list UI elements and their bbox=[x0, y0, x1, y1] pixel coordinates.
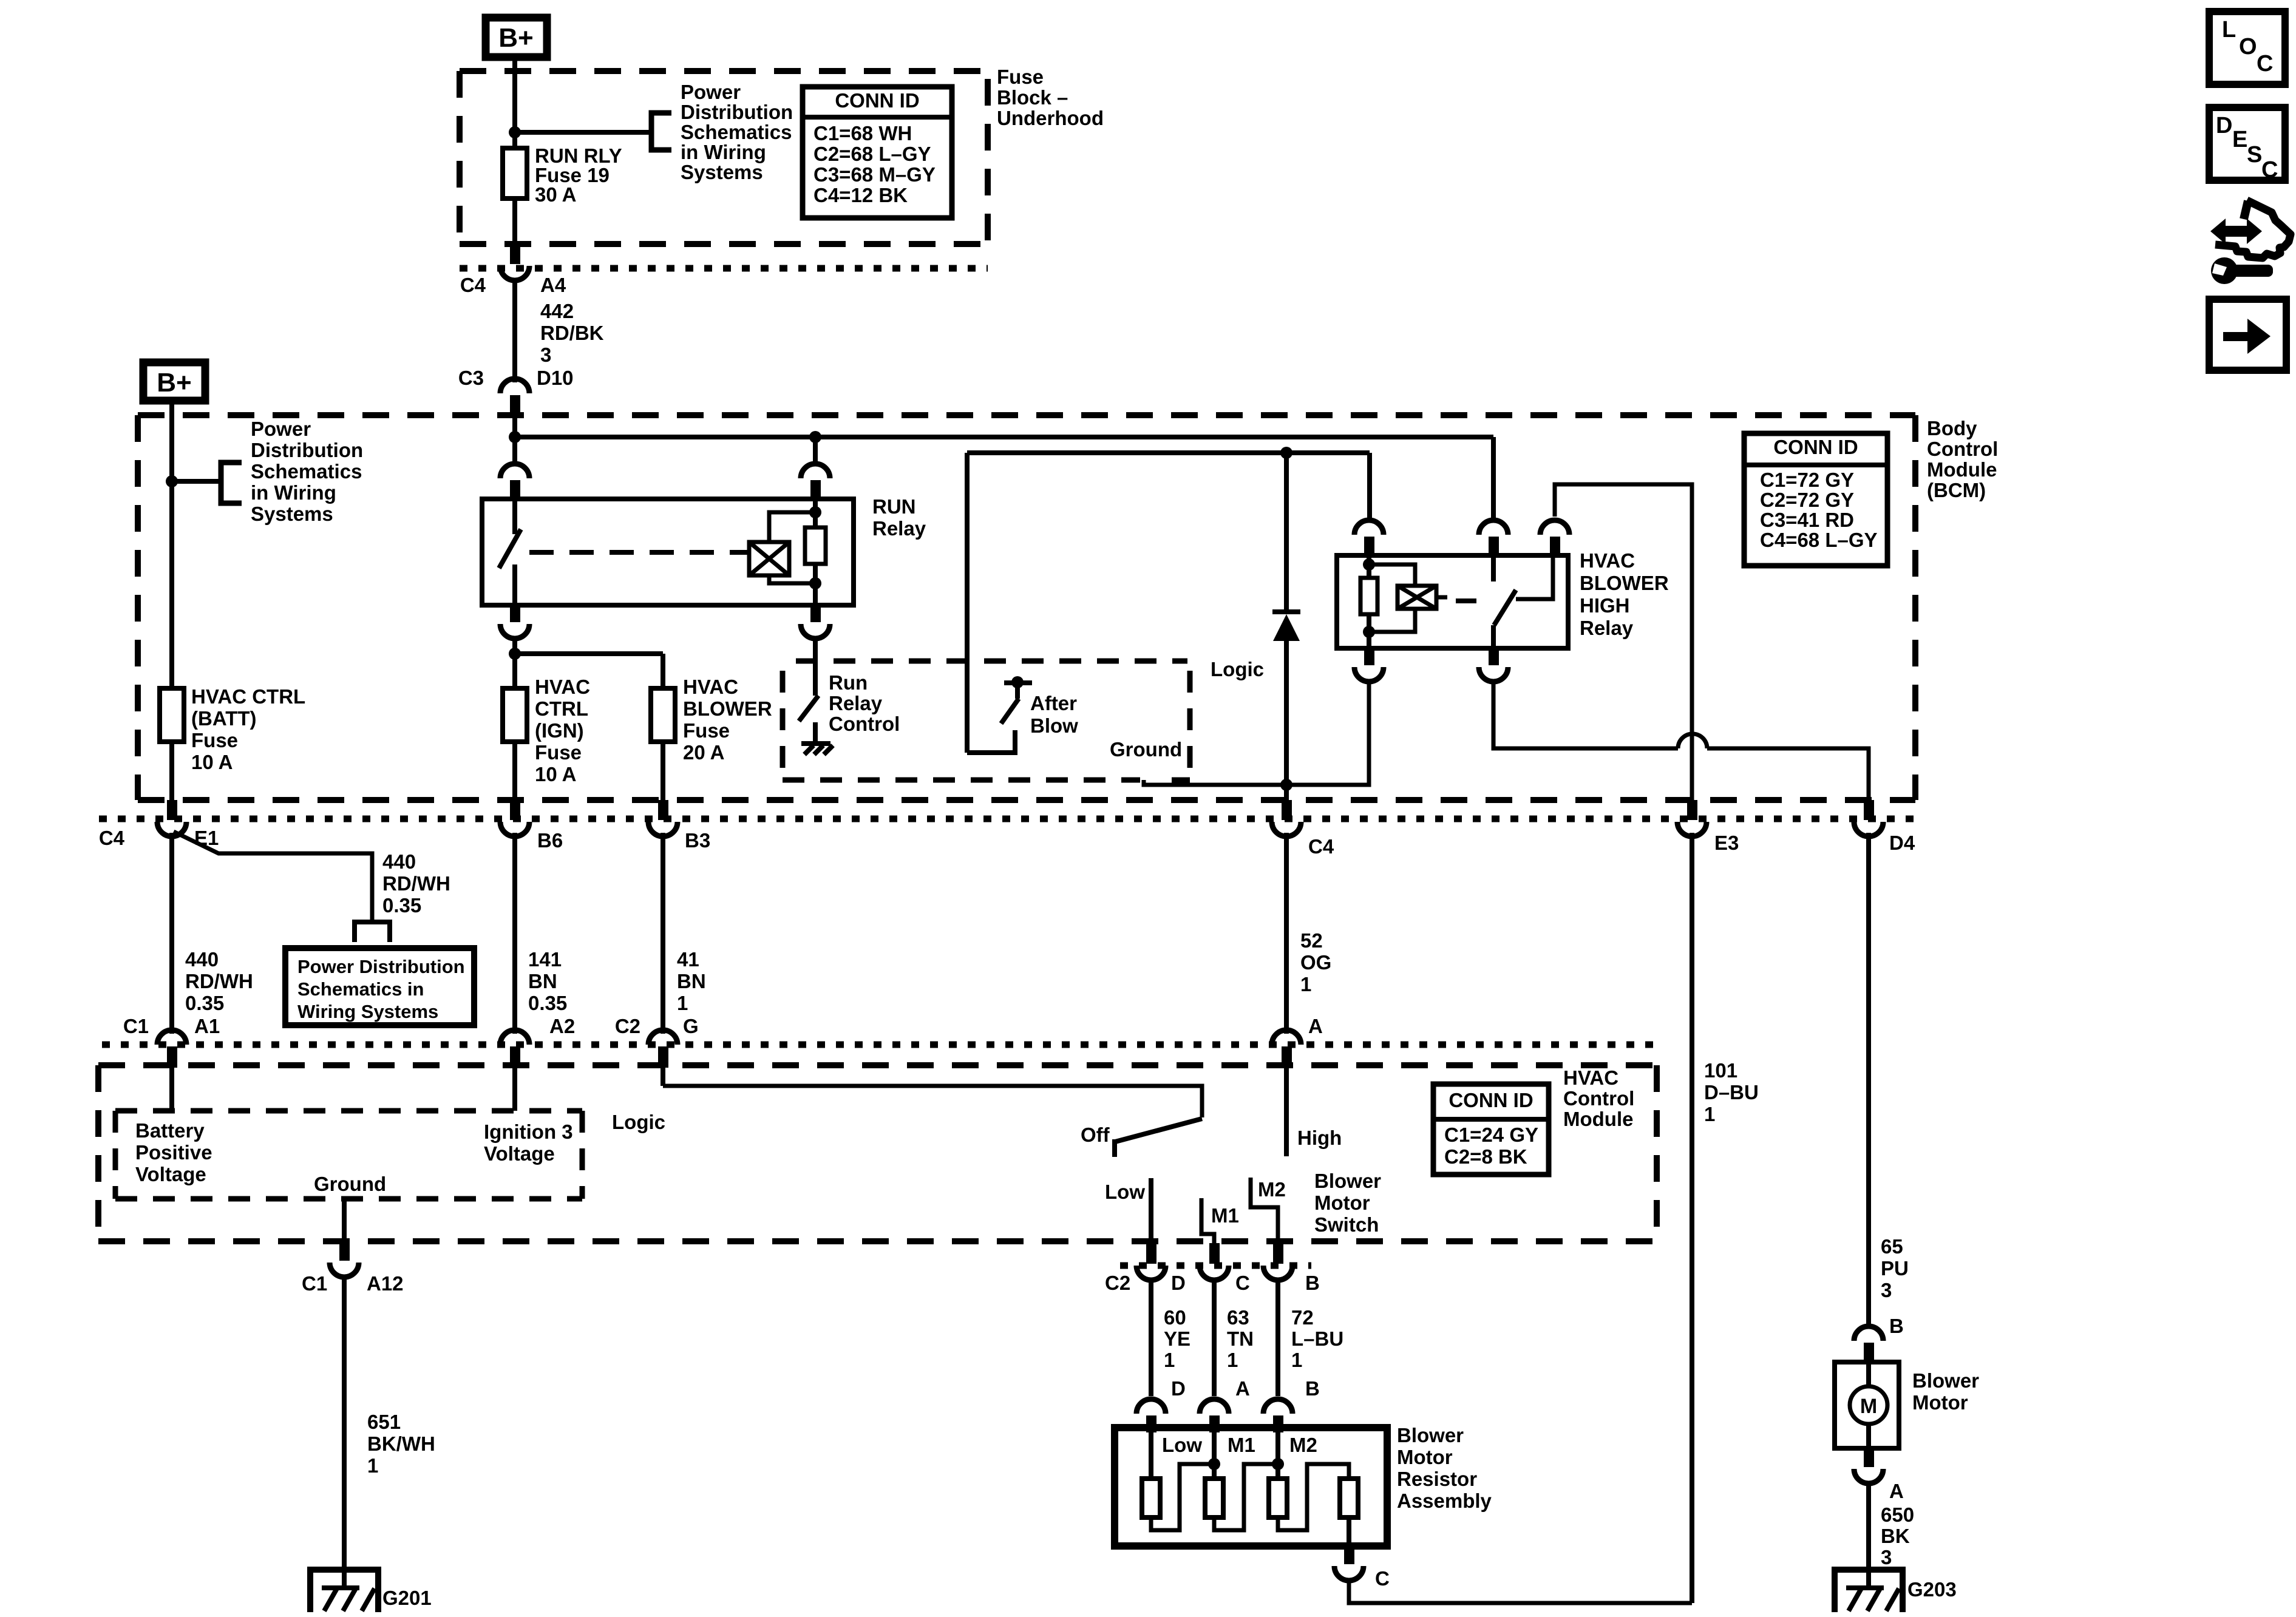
svg-text:D–BU: D–BU bbox=[1704, 1081, 1759, 1103]
svg-text:Blower: Blower bbox=[1912, 1369, 1979, 1392]
svg-text:C4=12 BK: C4=12 BK bbox=[813, 184, 908, 206]
svg-text:A: A bbox=[1235, 1377, 1250, 1400]
svg-text:C3=41 RD: C3=41 RD bbox=[1760, 509, 1854, 531]
svg-text:3: 3 bbox=[1881, 1546, 1892, 1568]
svg-text:Blow: Blow bbox=[1030, 714, 1078, 737]
svg-text:Motor: Motor bbox=[1314, 1192, 1370, 1214]
svg-text:Relay: Relay bbox=[872, 517, 926, 540]
svg-text:41: 41 bbox=[677, 948, 699, 971]
svg-text:B: B bbox=[1889, 1315, 1904, 1337]
CONN ID table (BCM) bbox=[1744, 433, 1887, 566]
connector C4 (BCM right) bbox=[1272, 800, 1334, 858]
wire 52 OG 1 (blower high control) bbox=[1286, 833, 1331, 1034]
svg-text:(IGN): (IGN) bbox=[535, 719, 584, 742]
blocking diode (blower high control) bbox=[1272, 453, 1300, 785]
connector A (blower motor) bbox=[1854, 1448, 1904, 1502]
wire from fuse to connector C4 pin A4 bbox=[512, 198, 517, 245]
svg-text:Motor: Motor bbox=[1912, 1391, 1968, 1414]
label: Battery Positive Voltage bbox=[135, 1119, 212, 1185]
svg-text:C3=68 M–GY: C3=68 M–GY bbox=[813, 163, 936, 186]
svg-text:C4=68 L–GY: C4=68 L–GY bbox=[1760, 529, 1878, 551]
svg-text:Control: Control bbox=[1563, 1087, 1634, 1110]
svg-text:Body: Body bbox=[1927, 417, 1977, 439]
svg-text:HIGH: HIGH bbox=[1580, 594, 1630, 617]
connector C3 / D10 (BCM input) bbox=[458, 367, 574, 416]
connector C (blower switch M1) bbox=[1200, 1243, 1250, 1294]
svg-text:Systems: Systems bbox=[681, 161, 763, 183]
svg-text:Blower: Blower bbox=[1397, 1424, 1464, 1446]
svg-text:D: D bbox=[1171, 1377, 1186, 1400]
svg-text:Distribution: Distribution bbox=[681, 101, 793, 123]
CONN ID table (fuse block underhood) bbox=[803, 87, 952, 218]
wire 101 D-BU 1 (ground control from E3) bbox=[1692, 833, 1759, 1603]
svg-text:HVAC: HVAC bbox=[683, 676, 738, 698]
svg-text:20 A: 20 A bbox=[683, 741, 724, 764]
After Blow switch bbox=[967, 676, 1032, 753]
wire battery feed bus inside BCM bbox=[512, 415, 517, 463]
switch output connector face dotted line bbox=[1120, 1263, 1311, 1269]
svg-text:Power: Power bbox=[251, 418, 311, 440]
ground G203 bbox=[1835, 1570, 1957, 1612]
wire bus1 to HVAC BLOWER HIGH relay switch bbox=[515, 437, 1493, 518]
svg-text:D4: D4 bbox=[1889, 832, 1915, 854]
svg-text:Fuse: Fuse bbox=[535, 741, 582, 764]
wire 72 L-BU 1 bbox=[1278, 1280, 1343, 1396]
connector C1 / A12 (HVAC module ground out) bbox=[302, 1242, 404, 1295]
svg-text:B+: B+ bbox=[157, 368, 191, 398]
reference box: Power Distribution Schematics in Wiring Systems bbox=[285, 948, 474, 1025]
svg-text:651: 651 bbox=[367, 1411, 401, 1433]
svg-text:D: D bbox=[2216, 113, 2232, 138]
svg-text:Schematics: Schematics bbox=[251, 460, 362, 483]
icon: vehicle diagnostic with arrows and wrench bbox=[2210, 200, 2291, 284]
connector E3 (BCM) bbox=[1677, 800, 1739, 854]
svg-text:RD/WH: RD/WH bbox=[185, 970, 253, 992]
wire bus2 (logic feed) inside BCM bbox=[967, 453, 1370, 753]
node: junction of B+ feed and schematic-reference tap bbox=[509, 126, 521, 138]
wire from B+ into BCM to HVAC CTRL BATT fuse bbox=[169, 404, 174, 690]
svg-text:M1: M1 bbox=[1211, 1204, 1239, 1227]
svg-text:A2: A2 bbox=[549, 1015, 575, 1037]
connector C4 / A4 (fuse block output) bbox=[460, 244, 566, 296]
svg-text:442: 442 bbox=[540, 300, 574, 322]
connector below HVAC BLOWER HIGH relay switch bbox=[1479, 648, 1508, 682]
connector C2 / D (blower switch low) bbox=[1105, 1243, 1186, 1294]
wire 141 BN 0.35 (ignition 3 voltage) bbox=[515, 833, 567, 1034]
wire 63 TN 1 bbox=[1214, 1280, 1254, 1396]
svg-text:Wiring Systems: Wiring Systems bbox=[297, 1001, 438, 1022]
connector pin into HVAC BLOWER HIGH relay (coil) bbox=[1354, 520, 1384, 558]
svg-text:0.35: 0.35 bbox=[185, 992, 224, 1014]
svg-text:C1=68 WH: C1=68 WH bbox=[813, 122, 912, 144]
svg-text:B6: B6 bbox=[537, 829, 563, 852]
connector below HVAC BLOWER HIGH relay coil bbox=[1354, 648, 1384, 682]
connector A (resistor assembly) bbox=[1200, 1377, 1250, 1432]
svg-text:Power Distribution: Power Distribution bbox=[297, 956, 465, 977]
svg-text:3: 3 bbox=[1881, 1279, 1892, 1301]
HVAC BLOWER HIGH relay coil assembly bbox=[1360, 557, 1447, 648]
svg-text:1: 1 bbox=[1164, 1349, 1175, 1371]
svg-text:BN: BN bbox=[528, 970, 557, 992]
connector B (resistor assembly) bbox=[1263, 1377, 1320, 1432]
icon: DESC bbox=[2209, 107, 2285, 183]
svg-text:TN: TN bbox=[1227, 1327, 1254, 1350]
node: junction IGN fuse / BLOWER fuse bbox=[509, 648, 521, 660]
svg-text:Ground: Ground bbox=[1110, 738, 1182, 761]
svg-text:Low: Low bbox=[1105, 1181, 1145, 1203]
connector B6 (BCM) bbox=[500, 800, 563, 852]
svg-text:S: S bbox=[2247, 142, 2262, 168]
resistor network wiring (serpentine) bbox=[1151, 1428, 1349, 1546]
svg-text:OG: OG bbox=[1300, 951, 1331, 974]
svg-text:A: A bbox=[1308, 1015, 1323, 1037]
RUN relay switch bbox=[499, 499, 521, 605]
wire ignition input to logic box bbox=[512, 1066, 517, 1111]
svg-text:Logic: Logic bbox=[1211, 658, 1264, 680]
node: junction M1 resistor tap bbox=[1208, 1458, 1220, 1470]
svg-text:C2: C2 bbox=[1105, 1272, 1130, 1294]
svg-text:1: 1 bbox=[1704, 1103, 1715, 1125]
wire from B+ into fuse block bbox=[512, 61, 517, 148]
power symbol B+ (BCM battery input) bbox=[143, 362, 205, 401]
svg-text:C4: C4 bbox=[1308, 835, 1334, 858]
wire 440 RD/WH 0.35 to HVAC control module bbox=[172, 833, 253, 1034]
label: RUN Relay bbox=[872, 495, 926, 540]
node: junction on BCM battery feed bbox=[166, 475, 178, 487]
svg-text:C2=72 GY: C2=72 GY bbox=[1760, 489, 1854, 511]
label: Ignition 3 Voltage bbox=[484, 1120, 573, 1165]
fuse RUN RLY Fuse 19 30 A bbox=[503, 144, 622, 206]
svg-text:E3: E3 bbox=[1714, 832, 1739, 854]
svg-text:E: E bbox=[2232, 127, 2247, 152]
wire relay output to connector D4 bbox=[1493, 682, 1869, 800]
svg-text:1: 1 bbox=[367, 1454, 378, 1477]
Run Relay Control switch and ground bbox=[799, 639, 833, 754]
svg-text:1: 1 bbox=[677, 992, 688, 1014]
svg-text:A12: A12 bbox=[367, 1272, 404, 1295]
connector pin into RUN relay (switch side) bbox=[500, 464, 529, 501]
svg-text:Positive: Positive bbox=[135, 1141, 212, 1164]
svg-text:Underhood: Underhood bbox=[997, 107, 1104, 129]
svg-text:Voltage: Voltage bbox=[484, 1142, 555, 1165]
wire 65 PU 3 (blower motor feed from D4) bbox=[1869, 833, 1909, 1326]
svg-text:Block –: Block – bbox=[997, 86, 1068, 109]
HVAC BLOWER HIGH relay box bbox=[1337, 555, 1568, 648]
resistor R-M2 bbox=[1269, 1479, 1287, 1517]
svg-text:BK: BK bbox=[1881, 1525, 1910, 1547]
svg-text:1: 1 bbox=[1300, 973, 1311, 995]
svg-text:Battery: Battery bbox=[135, 1119, 205, 1142]
svg-text:(BCM): (BCM) bbox=[1927, 479, 1986, 501]
svg-text:Fuse: Fuse bbox=[997, 66, 1044, 88]
icon: continuation arrow bbox=[2209, 299, 2286, 370]
svg-text:in Wiring: in Wiring bbox=[681, 141, 766, 163]
node: junction M2 resistor tap bbox=[1272, 1458, 1284, 1470]
svg-text:C3: C3 bbox=[458, 367, 484, 389]
HVAC BLOWER HIGH relay actuator dashed link bbox=[1456, 598, 1485, 603]
svg-text:BLOWER: BLOWER bbox=[683, 697, 772, 720]
svg-text:PU: PU bbox=[1881, 1257, 1909, 1280]
wire NO contact to connector E3 bbox=[1555, 484, 1692, 800]
svg-text:Voltage: Voltage bbox=[135, 1163, 206, 1185]
svg-text:C1=72 GY: C1=72 GY bbox=[1760, 469, 1854, 491]
svg-text:BN: BN bbox=[677, 970, 706, 992]
connector pin into HVAC BLOWER HIGH relay (NO contact) bbox=[1540, 520, 1569, 558]
label: HVAC BLOWER HIGH Relay bbox=[1580, 549, 1669, 639]
svg-text:0.35: 0.35 bbox=[528, 992, 567, 1014]
label: Blower Motor Resistor Assembly bbox=[1397, 1424, 1492, 1512]
svg-text:L–BU: L–BU bbox=[1291, 1327, 1343, 1350]
label: Run Relay Control bbox=[829, 671, 900, 735]
svg-text:Control: Control bbox=[1927, 438, 1998, 460]
svg-text:M2: M2 bbox=[1258, 1178, 1286, 1201]
svg-text:G203: G203 bbox=[1907, 1578, 1957, 1601]
svg-text:C: C bbox=[2257, 51, 2273, 76]
svg-text:65: 65 bbox=[1881, 1235, 1903, 1258]
wire resistor common to E3 ground control bbox=[1349, 1581, 1692, 1603]
svg-text:3: 3 bbox=[540, 344, 551, 366]
svg-text:440: 440 bbox=[382, 850, 416, 873]
wire 651 BK/WH 1 to ground G201 bbox=[344, 1277, 435, 1587]
connector B (blower switch M2) bbox=[1263, 1243, 1320, 1294]
switch contact M2 bbox=[1251, 1178, 1278, 1243]
RUN relay box bbox=[482, 499, 854, 605]
label: HVAC Control Module bbox=[1563, 1066, 1634, 1130]
resistor R-low bbox=[1142, 1479, 1160, 1517]
svg-text:M: M bbox=[1860, 1395, 1877, 1418]
Body Control Module dashed outline bbox=[138, 415, 1915, 800]
connector D4 (BCM) bbox=[1854, 800, 1915, 854]
svg-text:C: C bbox=[2261, 157, 2278, 183]
connector C2 / G (HVAC module) bbox=[615, 1015, 699, 1068]
svg-text:YE: YE bbox=[1164, 1327, 1190, 1350]
wire 60 YE 1 bbox=[1151, 1280, 1190, 1396]
connector pin into HVAC BLOWER HIGH relay (switch common) bbox=[1479, 520, 1508, 558]
svg-text:HVAC CTRL: HVAC CTRL bbox=[191, 685, 305, 708]
connector A (HVAC module, high) bbox=[1272, 1015, 1323, 1068]
svg-text:CONN ID: CONN ID bbox=[1449, 1089, 1533, 1111]
svg-text:C1: C1 bbox=[302, 1272, 327, 1295]
labels inside resistor assembly bbox=[1162, 1434, 1317, 1456]
svg-text:Logic: Logic bbox=[612, 1111, 665, 1133]
svg-text:C1: C1 bbox=[123, 1015, 149, 1037]
HVAC logic inner dashed box bbox=[115, 1111, 582, 1199]
svg-text:HVAC: HVAC bbox=[1563, 1066, 1618, 1089]
svg-text:G: G bbox=[683, 1015, 699, 1037]
svg-text:(BATT): (BATT) bbox=[191, 707, 257, 730]
switch contact M1 bbox=[1201, 1198, 1214, 1243]
svg-text:650: 650 bbox=[1881, 1503, 1914, 1526]
wire 41 BN 1 (blower feed to switch) bbox=[663, 833, 706, 1034]
connector D (resistor assembly) bbox=[1136, 1377, 1186, 1432]
svg-text:A: A bbox=[1889, 1480, 1904, 1502]
svg-text:63: 63 bbox=[1227, 1306, 1249, 1329]
svg-text:60: 60 bbox=[1164, 1306, 1186, 1329]
svg-text:After: After bbox=[1030, 692, 1077, 714]
CONN ID table (HVAC control module) bbox=[1433, 1084, 1549, 1175]
HVAC control module dashed outline bbox=[98, 1065, 1657, 1241]
blower motor switch feed and Off contact bbox=[663, 1066, 1202, 1157]
label: Power Distribution Schematics in Wiring Systems (fuse block) bbox=[681, 81, 793, 183]
wire ground from logic box to connector C1 A12 bbox=[342, 1199, 347, 1243]
svg-text:Switch: Switch bbox=[1314, 1213, 1379, 1236]
svg-text:A4: A4 bbox=[540, 274, 566, 296]
connector below RUN relay switch bbox=[500, 605, 529, 639]
svg-text:High: High bbox=[1297, 1127, 1342, 1149]
HVAC control module connector face dotted line bbox=[102, 1042, 1657, 1048]
svg-text:Schematics: Schematics bbox=[681, 121, 792, 143]
svg-text:Fuse: Fuse bbox=[683, 719, 730, 742]
fuse HVAC CTRL (BATT) 10 A bbox=[160, 685, 305, 773]
ground G201 bbox=[310, 1570, 432, 1612]
svg-text:C1=24 GY: C1=24 GY bbox=[1444, 1124, 1538, 1146]
svg-text:Low: Low bbox=[1162, 1434, 1202, 1456]
svg-text:B: B bbox=[1305, 1272, 1320, 1294]
svg-text:0.35: 0.35 bbox=[382, 894, 421, 917]
node: junction bus to RUN relay coil bbox=[809, 431, 821, 443]
svg-text:Module: Module bbox=[1927, 458, 1997, 481]
fuse block connector face dotted line bbox=[460, 265, 988, 272]
svg-text:HVAC: HVAC bbox=[1580, 549, 1635, 572]
wire RUN relay coil feed bbox=[813, 437, 818, 465]
node: junction diode / logic ground / relay coil return bbox=[1280, 779, 1292, 791]
svg-text:CTRL: CTRL bbox=[535, 697, 588, 720]
fuse HVAC BLOWER 20 A bbox=[651, 676, 772, 764]
svg-text:Ground: Ground bbox=[314, 1173, 386, 1195]
svg-text:B+: B+ bbox=[498, 23, 533, 53]
connector C1 / A1 (HVAC module) bbox=[123, 1015, 220, 1068]
svg-text:in Wiring: in Wiring bbox=[251, 481, 336, 504]
switch contact Low bbox=[1149, 1178, 1153, 1243]
blower motor resistor assembly box bbox=[1115, 1428, 1387, 1546]
svg-text:C2: C2 bbox=[615, 1015, 640, 1037]
svg-text:141: 141 bbox=[528, 948, 562, 971]
wire tap to power distribution reference bracket (BCM) bbox=[172, 463, 242, 503]
svg-text:M2: M2 bbox=[1289, 1434, 1317, 1456]
connector below RUN relay coil bbox=[801, 605, 830, 639]
svg-text:Blower: Blower bbox=[1314, 1170, 1381, 1192]
svg-text:Off: Off bbox=[1081, 1124, 1110, 1146]
wire 442 RD/BK 3 from fuse block to BCM bbox=[515, 280, 604, 382]
connector C (resistor assembly common) bbox=[1334, 1546, 1390, 1590]
svg-text:Relay: Relay bbox=[829, 692, 883, 714]
node: junction bus to RUN relay switch bbox=[509, 431, 521, 443]
svg-text:Module: Module bbox=[1563, 1108, 1633, 1130]
blower motor bbox=[1835, 1362, 1899, 1448]
svg-text:10 A: 10 A bbox=[535, 763, 576, 785]
resistor R-common bbox=[1340, 1479, 1358, 1517]
wire BLOWER fuse to connector B3 bbox=[661, 742, 665, 800]
resistor R-M1 bbox=[1205, 1479, 1223, 1517]
label: Power Distribution Schematics in Wiring Systems (BCM) bbox=[251, 418, 363, 525]
svg-text:B: B bbox=[1305, 1377, 1320, 1400]
BCM connector face dotted line bbox=[99, 816, 1918, 822]
label: Blower Motor Switch bbox=[1314, 1170, 1381, 1236]
svg-text:Fuse: Fuse bbox=[191, 729, 238, 751]
svg-text:M1: M1 bbox=[1228, 1434, 1255, 1456]
svg-text:RD/BK: RD/BK bbox=[540, 322, 604, 344]
svg-text:C2=68 L–GY: C2=68 L–GY bbox=[813, 143, 931, 165]
svg-text:O: O bbox=[2239, 34, 2257, 59]
fuse block dashed outline bbox=[460, 71, 988, 244]
wire to HVAC BLOWER fuse bbox=[515, 654, 663, 690]
wire BATT fuse to connector E1 bbox=[169, 742, 174, 800]
svg-text:Control: Control bbox=[829, 713, 900, 735]
svg-text:A1: A1 bbox=[194, 1015, 220, 1037]
svg-text:Resistor: Resistor bbox=[1397, 1468, 1477, 1490]
fuse HVAC CTRL (IGN) 10 A bbox=[503, 676, 590, 785]
wire IGN fuse to connector B6 bbox=[512, 742, 517, 800]
svg-text:1: 1 bbox=[1227, 1349, 1238, 1371]
svg-text:L: L bbox=[2222, 17, 2236, 42]
connector B3 (BCM) bbox=[648, 800, 710, 852]
svg-text:10 A: 10 A bbox=[191, 751, 233, 773]
svg-text:CONN ID: CONN ID bbox=[835, 89, 919, 112]
label: After Blow bbox=[1030, 692, 1078, 737]
wire logic ground to connector C4 (BCM) bbox=[1144, 780, 1286, 785]
svg-text:C4: C4 bbox=[99, 827, 125, 849]
svg-text:Schematics in: Schematics in bbox=[297, 978, 424, 1000]
svg-text:C: C bbox=[1235, 1272, 1250, 1294]
logic dashed box (Run Relay Control / After Blow) bbox=[783, 661, 1190, 780]
label: Blower Motor bbox=[1912, 1369, 1979, 1414]
connector pin into RUN relay (coil side) bbox=[801, 464, 830, 501]
RUN relay coil assembly bbox=[749, 499, 826, 605]
svg-text:C: C bbox=[1375, 1567, 1390, 1590]
svg-text:Motor: Motor bbox=[1397, 1446, 1453, 1468]
connector B (blower motor) bbox=[1854, 1315, 1904, 1363]
wire 650 BK 3 to ground G203 bbox=[1869, 1483, 1914, 1587]
svg-text:440: 440 bbox=[185, 948, 219, 971]
connector A2 (HVAC module) bbox=[500, 1015, 575, 1068]
svg-text:D10: D10 bbox=[537, 367, 574, 389]
wire C4 node to connector bbox=[1284, 785, 1289, 800]
svg-text:101: 101 bbox=[1704, 1059, 1737, 1082]
svg-text:HVAC: HVAC bbox=[535, 676, 590, 698]
RUN relay actuator dashed link bbox=[529, 550, 748, 555]
svg-text:Systems: Systems bbox=[251, 503, 333, 525]
wire battery input to logic box bbox=[169, 1066, 174, 1111]
svg-text:52: 52 bbox=[1300, 929, 1323, 952]
svg-text:C2=8 BK: C2=8 BK bbox=[1444, 1145, 1527, 1168]
label: Body Control Module (BCM) bbox=[1927, 417, 1998, 501]
wire tap to power distribution reference bracket bbox=[515, 113, 671, 150]
svg-text:Ignition 3: Ignition 3 bbox=[484, 1120, 573, 1143]
svg-text:RD/WH: RD/WH bbox=[382, 872, 450, 895]
svg-text:C4: C4 bbox=[460, 274, 486, 296]
connector C4 / E1 (BCM) bbox=[99, 800, 219, 849]
HVAC BLOWER HIGH relay switch bbox=[1493, 555, 1553, 648]
svg-text:RUN: RUN bbox=[872, 495, 916, 518]
power symbol B+ (battery feed, fuse block) bbox=[486, 18, 547, 57]
svg-text:BLOWER: BLOWER bbox=[1580, 572, 1669, 594]
svg-text:Power: Power bbox=[681, 81, 741, 103]
svg-text:Relay: Relay bbox=[1580, 617, 1634, 639]
wire RUN relay output to fuses bbox=[512, 639, 517, 690]
label: Fuse Block - Underhood bbox=[997, 66, 1104, 129]
wire relay coil return to C4 node bbox=[1286, 681, 1369, 785]
switch contact High bbox=[1284, 1066, 1289, 1156]
svg-text:D: D bbox=[1171, 1272, 1186, 1294]
node: junction bus2 to blocking diode bbox=[1280, 447, 1292, 459]
svg-text:30 A: 30 A bbox=[535, 183, 576, 206]
svg-text:Assembly: Assembly bbox=[1397, 1490, 1492, 1512]
svg-text:Distribution: Distribution bbox=[251, 439, 363, 461]
icon: LOC bbox=[2209, 12, 2285, 84]
svg-text:BK/WH: BK/WH bbox=[367, 1432, 435, 1455]
svg-text:G201: G201 bbox=[382, 1587, 432, 1609]
wire branch 440 RD/WH 0.35 to power distribution reference bbox=[174, 832, 450, 942]
